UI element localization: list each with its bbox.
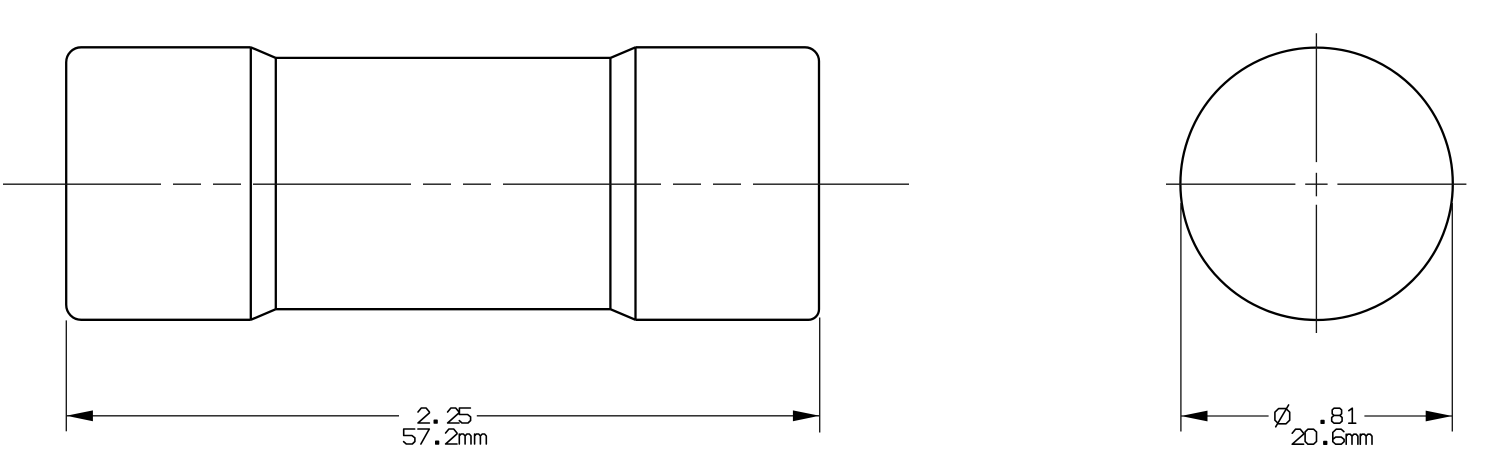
vertical centerline lower long dash (1315, 205, 1317, 333)
fuse end view circle (1180, 48, 1452, 320)
diameter dimension line right segment (1364, 415, 1452, 417)
body left edge line (275, 58, 277, 309)
body bottom outline (276, 308, 611, 310)
right extension line (819, 318, 821, 433)
right top taper (chamfer) (610, 47, 635, 58)
circle right extension line (1451, 203, 1453, 432)
dimension text 20.6mm (1292, 429, 1372, 444)
dimension line right segment (477, 415, 820, 417)
horizontal center mark dash (1305, 183, 1327, 185)
vertical centerline upper long dash (1315, 33, 1317, 162)
diameter left arrowhead (1181, 411, 1208, 422)
left cap / body junction edge line (250, 47, 252, 320)
body right edge line (609, 58, 611, 309)
right arrowhead (793, 410, 820, 421)
fuse body side view: left end cap outline (66, 47, 251, 320)
diameter dimension line left segment (1181, 415, 1269, 417)
diameter right arrowhead (1426, 411, 1453, 422)
right cap / body junction edge line (634, 47, 636, 320)
body top outline (276, 57, 611, 59)
diameter symbol (1275, 405, 1290, 427)
dimension text .81 (1321, 408, 1356, 423)
left arrowhead (66, 410, 93, 421)
dimension text 2.25 (418, 408, 471, 423)
fuse body side view: right end cap outline (636, 47, 820, 320)
left top taper (chamfer) (251, 47, 276, 58)
left extension line (65, 320, 67, 431)
right bottom taper (chamfer) (610, 309, 635, 320)
horizontal centerline left long dash (1166, 183, 1295, 185)
dimension line left segment (66, 415, 399, 417)
horizontal centerline of side view (3, 183, 909, 185)
dimension text 57.2mm (404, 429, 487, 444)
circle left extension line (1180, 203, 1182, 432)
horizontal centerline right long dash (1337, 183, 1466, 185)
vertical center mark dash (1315, 173, 1317, 197)
left bottom taper (chamfer) (251, 309, 276, 320)
